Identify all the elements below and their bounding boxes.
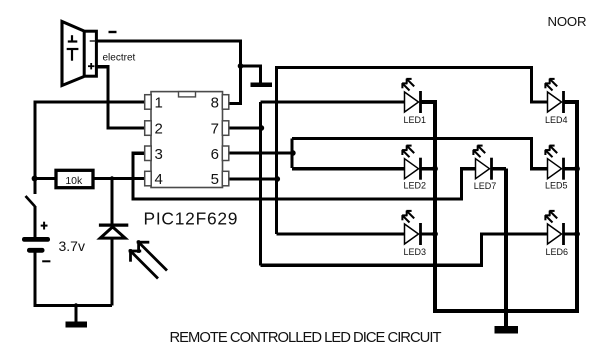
svg-text:10k: 10k [65,175,83,187]
svg-text:electret: electret [103,53,136,64]
svg-text:LED6: LED6 [546,247,569,257]
svg-text:6: 6 [211,146,219,163]
svg-text:LED5: LED5 [545,181,568,191]
svg-text:3: 3 [155,146,163,163]
svg-text:5: 5 [211,171,219,188]
svg-text:REMOTE CONTROLLED LED DICE CIR: REMOTE CONTROLLED LED DICE CIRCUIT [170,330,442,346]
svg-text:LED3: LED3 [404,247,427,257]
svg-text:8: 8 [211,95,219,112]
svg-text:7: 7 [211,121,219,138]
svg-text:3.7v: 3.7v [59,238,85,254]
svg-text:PIC12F629: PIC12F629 [144,209,239,229]
svg-text:4: 4 [155,171,163,188]
svg-text:LED2: LED2 [404,181,427,191]
svg-text:1: 1 [155,95,163,112]
svg-text:2: 2 [155,121,163,138]
svg-text:LED7: LED7 [474,181,497,191]
svg-text:LED4: LED4 [545,115,568,125]
svg-text:NOOR: NOOR [548,14,587,29]
svg-text:LED1: LED1 [404,115,427,125]
